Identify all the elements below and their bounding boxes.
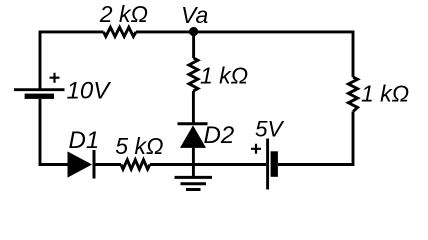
- svg-text:5 kΩ: 5 kΩ: [115, 133, 163, 159]
- wire: diode D2 through bottom rail to ground: [192, 148, 195, 178]
- diode D2 cathode bar: [178, 122, 208, 125]
- resistor 2 kOhm zigzag: [104, 27, 137, 36]
- wire: node Va down to middle resistor: [192, 32, 195, 58]
- svg-text:1 kΩ: 1 kΩ: [361, 81, 409, 107]
- wire: battery 5V to bottom-right corner up to right resistor: [278, 112, 353, 165]
- wire: left rail top + top rail left segment: [40, 32, 104, 89]
- battery 5V plus sign: [251, 144, 261, 154]
- battery 10V long plate: [14, 88, 65, 91]
- resistor 1 kOhm right zigzag: [348, 77, 357, 112]
- svg-text:2 kΩ: 2 kΩ: [99, 1, 148, 27]
- resistor 5 kOhm zigzag: [121, 160, 150, 169]
- svg-text:10V: 10V: [67, 78, 112, 105]
- battery 5V long plate: [266, 139, 269, 190]
- svg-text:D1: D1: [69, 127, 100, 154]
- resistor 1 kOhm middle zigzag: [189, 58, 198, 91]
- battery 10V plus sign: [50, 73, 60, 83]
- wire: top rail from resistor to node Va to top-right corner: [136, 32, 353, 77]
- diode D2 triangle (pointing up): [180, 125, 206, 148]
- svg-text:1 kΩ: 1 kΩ: [200, 63, 248, 89]
- node Va junction dot: [189, 27, 198, 36]
- svg-text:5V: 5V: [255, 117, 285, 142]
- battery 5V short thick plate: [271, 151, 278, 177]
- ground bar 2: [181, 182, 207, 185]
- wire: middle resistor down to diode D2: [192, 91, 195, 123]
- ground bar 1: [175, 176, 213, 179]
- svg-text:D2: D2: [204, 122, 235, 149]
- diode D1 cathode bar: [93, 150, 96, 179]
- ground bar 3: [186, 188, 201, 191]
- wire: 5k resistor to battery 5V (crossing ground junction): [150, 163, 266, 166]
- diode D1 triangle: [68, 151, 93, 177]
- wire D1 to 5k resistor: [96, 163, 122, 166]
- battery 10V short thick plate: [25, 94, 54, 99]
- wire: battery 10V down to bottom-left corner and to diode D1: [40, 99, 68, 165]
- svg-text:Va: Va: [181, 2, 208, 28]
